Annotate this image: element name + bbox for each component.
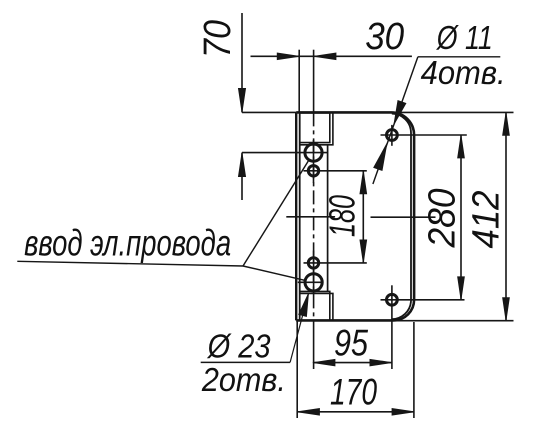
note Ø11: leader arrow lower (solid, points up-right) xyxy=(374,144,387,171)
hole Ø11 top-left xyxy=(308,166,318,176)
note Ø23: leader line xyxy=(290,293,308,362)
note Ø11: leader arrow upper (solid, points down-left) xyxy=(394,101,406,125)
svg-text:2оmв.: 2оmв. xyxy=(201,361,286,398)
dim 30: arrow pointing left at centerline ext xyxy=(314,53,336,60)
dim 280: dimension line xyxy=(460,135,462,300)
dim 95: dimension line xyxy=(313,362,392,364)
plate outline: bottom-right corner arc outer xyxy=(394,300,415,321)
dim 280: arrow down (hollow) xyxy=(458,277,465,300)
dim 280: extension bottom (through hole F) xyxy=(381,299,465,301)
top-left notch rectangle inner xyxy=(300,113,330,143)
hole Ø23 top-left vertical tick xyxy=(313,140,315,183)
note Ø23: leader arrow (solid, points up) xyxy=(299,293,309,316)
dim 180: dimension line xyxy=(362,171,364,263)
dim 280: extension top (through hole E) xyxy=(381,134,467,136)
inner rail right edge between notches xyxy=(327,145,329,292)
top-left notch second line (offset) xyxy=(300,113,333,145)
dim 170: arrow left (solid) xyxy=(297,409,319,416)
hole Ø23 bottom-left horizontal tick xyxy=(298,281,324,283)
svg-text:180: 180 xyxy=(322,195,363,237)
svg-text:4оmв.: 4оmв. xyxy=(421,54,506,91)
dim 95: arrow right (solid) xyxy=(370,359,392,366)
note ввод эл.провода: leader to hole Ø23 bottom xyxy=(243,266,305,280)
svg-text:95: 95 xyxy=(334,323,368,364)
dim 70: extension line at plate top xyxy=(242,111,296,113)
dim 70: dimension line upper segment with extension above xyxy=(241,13,243,112)
note Ø11: leader line xyxy=(373,57,418,184)
dim 180: extension bottom (through hole C) xyxy=(304,262,367,264)
plate outline: left edge outer xyxy=(295,112,297,320)
plate right edge inner (sheet thickness) xyxy=(410,133,412,302)
dim 70: arrow down (solid) xyxy=(238,88,245,112)
dim 412: arrow up (hollow) xyxy=(503,112,510,135)
plate outline: top edge (thick contour) xyxy=(296,111,391,114)
plate outline: top-right corner arc outer xyxy=(392,112,415,135)
plate outline: right edge outer xyxy=(413,135,416,300)
dim 412: arrow down (hollow) xyxy=(503,298,510,321)
dim 412: extension top (top edge extended) xyxy=(392,111,514,113)
dim 70: lower segment xyxy=(241,153,243,200)
hole Ø23 top-left xyxy=(305,144,322,161)
dim 70: arrow up (hollow) xyxy=(238,153,245,177)
dim 30: arrow pointing right at left ext xyxy=(277,53,299,60)
right edge extension below plate (170-dim) xyxy=(413,322,415,418)
inner top-right corner arc xyxy=(392,114,411,133)
dim 180: arrow up (solid) xyxy=(360,171,367,194)
dim 170: arrow right (solid) xyxy=(392,409,414,416)
svg-text:30: 30 xyxy=(365,16,404,58)
inner bottom-right corner arc xyxy=(392,302,411,320)
hole Ø23 bottom-left vertical tick xyxy=(313,251,315,295)
svg-text:Ø 11: Ø 11 xyxy=(436,19,493,56)
horizontal mid centerline tick right xyxy=(371,216,436,218)
svg-text:Ø 23: Ø 23 xyxy=(207,328,271,365)
hole Ø11 top-right vertical tick xyxy=(391,125,393,146)
dim 412: extension bottom (bottom edge extended) xyxy=(394,320,514,322)
dim 180: extension top (through hole B) xyxy=(304,170,367,172)
right holes centerline below plate (95-dim) xyxy=(391,285,393,369)
note Ø23: underline xyxy=(201,361,290,363)
plate left edge inner (sheet thickness) xyxy=(299,113,301,320)
dim 280: arrow up (hollow) xyxy=(458,135,465,158)
note Ø11: underline xyxy=(418,56,500,58)
left edge extension below plate (170-dim) xyxy=(296,320,298,418)
svg-text:70: 70 xyxy=(197,20,239,58)
svg-text:ввод эл.провода: ввод эл.провода xyxy=(24,223,231,264)
plate outline: bottom edge (thick contour) xyxy=(296,319,393,322)
svg-text:170: 170 xyxy=(330,372,377,413)
hole Ø23 bottom-left xyxy=(305,274,322,291)
centerline extension above plate (30-dim) xyxy=(313,50,315,113)
dim 412: dimension line xyxy=(505,112,507,320)
left edge extension above plate (30-dim) xyxy=(298,50,300,113)
dim 180: arrow down (hollow) xyxy=(360,240,367,263)
dim 70: extension line at hole A / hole tick xyxy=(242,152,327,154)
note ввод эл.провода: underline xyxy=(17,261,243,266)
centerline extension below plate (95-dim) xyxy=(313,320,315,369)
svg-text:412: 412 xyxy=(465,191,507,249)
bottom-left notch second line (offset) xyxy=(300,293,333,320)
bottom-left notch rectangle inner xyxy=(300,291,330,320)
dim 95: arrow left (solid) xyxy=(313,359,335,366)
note ввод эл.провода: leader to hole Ø23 top xyxy=(243,160,309,266)
hole Ø11 bottom-right xyxy=(387,294,398,305)
dim 170: dimension line xyxy=(297,411,414,413)
horizontal mid centerline tick left xyxy=(286,216,335,218)
svg-text:280: 280 xyxy=(421,189,463,249)
vertical dashed centerline through left holes xyxy=(313,112,315,320)
hole Ø11 bottom-left xyxy=(308,258,318,268)
hole Ø11 top-right xyxy=(387,130,398,141)
dim 30: dimension line xyxy=(251,55,412,57)
